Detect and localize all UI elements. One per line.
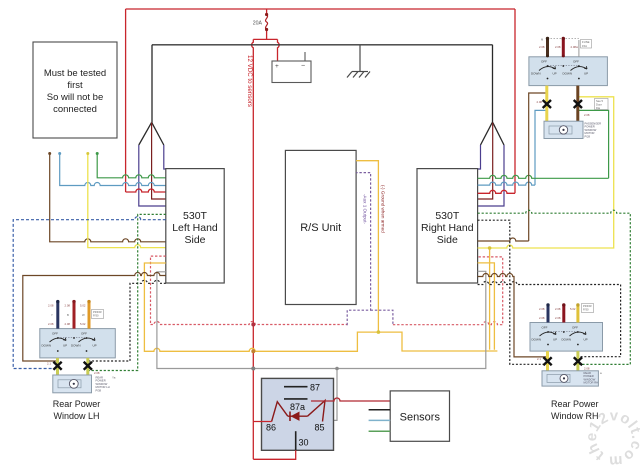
svg-text:first: first bbox=[67, 80, 83, 91]
SW2 switch symbols bbox=[50, 338, 96, 342]
svg-text:85: 85 bbox=[315, 423, 325, 433]
module 530T Right Hand Side bbox=[417, 169, 478, 283]
junction dot yellow riser bbox=[488, 246, 492, 250]
svg-text:5.02: 5.02 bbox=[80, 322, 86, 326]
rear window switch SW2 (LH) bbox=[40, 329, 116, 358]
svg-text:Side: Side bbox=[184, 234, 205, 246]
cut mark X on SW3 right stub bbox=[574, 357, 582, 365]
svg-text:+: + bbox=[275, 63, 279, 70]
svg-text:(-) Ground when armed: (-) Ground when armed bbox=[381, 185, 386, 233]
SW1 supply stub thin bbox=[578, 40, 580, 57]
svg-text:Ya: Ya bbox=[112, 376, 116, 380]
SW1 motor stub yellow bbox=[545, 86, 548, 122]
relay contact arms and diode D1 bbox=[272, 401, 325, 422]
SW3 switch symbols bbox=[540, 332, 587, 336]
wire: pink dotted Aux1 Output net bbox=[151, 256, 503, 325]
wire: dark red center leg right bbox=[478, 123, 493, 199]
svg-text:MOTOR RH: MOTOR RH bbox=[584, 381, 599, 385]
svg-text:−: − bbox=[301, 63, 305, 70]
wire: green dotted to LH motor below cut bbox=[88, 214, 166, 370]
svg-text:2.08: 2.08 bbox=[584, 113, 590, 117]
cut mark X on SW2 left stub bbox=[53, 362, 61, 370]
svg-text:5.02: 5.02 bbox=[570, 307, 576, 311]
svg-text:Y: Y bbox=[51, 313, 53, 317]
svg-text:2.08: 2.08 bbox=[584, 367, 590, 371]
SW3 supply stub navy bbox=[547, 305, 550, 323]
wire: brown tap from passenger switch into 530T right bbox=[478, 93, 547, 241]
SW1 supply stub brown bbox=[546, 39, 549, 57]
svg-text:UP: UP bbox=[553, 72, 557, 76]
svg-text:2.08: 2.08 bbox=[555, 307, 561, 311]
wire: red 86 branch bbox=[253, 421, 271, 423]
junction dots on 12VDC red line bbox=[251, 323, 255, 327]
wire: black dashed to RH motor below cut bbox=[478, 220, 546, 364]
wire: red 30 bottom loop bbox=[253, 450, 295, 459]
svg-text:Rear Power: Rear Power bbox=[551, 399, 599, 409]
svg-text:2.08: 2.08 bbox=[65, 304, 71, 308]
svg-text:530T: 530T bbox=[435, 210, 460, 222]
pin 30 bbox=[295, 431, 297, 450]
svg-text:530T: 530T bbox=[183, 210, 208, 222]
svg-text:Dia: Dia bbox=[596, 106, 601, 110]
svg-text:OFF: OFF bbox=[572, 326, 578, 330]
pin 87a bbox=[284, 398, 308, 400]
wire: brown to RH motor above cut bbox=[478, 274, 548, 357]
wire: purple fork leg left to pin bbox=[139, 145, 166, 206]
module 530T Left Hand Side bbox=[166, 169, 224, 283]
wire: red +12 feed into 530T right bbox=[478, 9, 515, 193]
svg-text:2.08: 2.08 bbox=[65, 322, 71, 326]
svg-text:UP: UP bbox=[584, 338, 588, 342]
note box: Must be tested first bbox=[33, 42, 117, 138]
svg-text:5.02: 5.02 bbox=[80, 304, 86, 308]
SW3 motor stub left bbox=[546, 351, 549, 371]
cut mark X on SW3 left stub bbox=[543, 357, 551, 365]
loom fork above 530T right bbox=[481, 45, 505, 145]
svg-text:87: 87 bbox=[310, 383, 320, 393]
wire: black dotted to LH motor above cut bbox=[88, 280, 166, 361]
svg-text:DOWN: DOWN bbox=[531, 72, 541, 76]
fuse F1 20A bbox=[266, 15, 268, 30]
pin 87 bbox=[284, 386, 308, 388]
SW3 motor stub right bbox=[576, 351, 579, 371]
svg-text:20A: 20A bbox=[253, 21, 263, 27]
wire: purple fork leg right to box corner bbox=[164, 145, 166, 169]
svg-text:OFF: OFF bbox=[542, 326, 548, 330]
svg-text:2.08: 2.08 bbox=[539, 307, 545, 311]
svg-text:15A: 15A bbox=[582, 44, 587, 48]
module Sensors bbox=[390, 391, 449, 441]
svg-text:30: 30 bbox=[299, 438, 309, 448]
wire: yellow net right run to passenger switch bbox=[478, 97, 614, 248]
wire: red 87a to sensors bbox=[311, 398, 390, 401]
svg-text:87a: 87a bbox=[290, 402, 305, 412]
svg-text:DOWN: DOWN bbox=[42, 344, 52, 348]
passenger window switch SW1 (top right) bbox=[529, 57, 608, 86]
wire: red feed into 530T left bbox=[126, 189, 166, 192]
svg-text:2.08: 2.08 bbox=[48, 322, 54, 326]
SW2 tap label box bbox=[92, 310, 104, 319]
watermark the12volt.com bbox=[583, 407, 640, 469]
SW2 supply stub orange bbox=[88, 302, 91, 329]
svg-text:P/38: P/38 bbox=[96, 388, 102, 392]
wire: purple fork leg to right box pin bbox=[478, 145, 504, 206]
svg-text:86: 86 bbox=[266, 423, 276, 433]
wire: green dotted to RH motor below cut bbox=[478, 210, 631, 364]
relay K1 bbox=[262, 378, 334, 450]
svg-text:Side: Side bbox=[437, 234, 458, 246]
wire: dark red center leg to pin bbox=[152, 123, 166, 199]
svg-text:UP: UP bbox=[584, 72, 588, 76]
svg-text:2.08w: 2.08w bbox=[571, 45, 579, 49]
SW2 motor stub right bbox=[86, 358, 89, 375]
wire: blue dashed to LH motor below cut bbox=[13, 217, 166, 369]
wire: purple fork leg to right box corner bbox=[478, 145, 481, 169]
passenger window motor M1 bbox=[544, 121, 583, 138]
svg-text:2.08: 2.08 bbox=[537, 100, 543, 104]
svg-text:PRIOR: PRIOR bbox=[583, 304, 592, 308]
rear RH window motor M3 bbox=[542, 371, 598, 386]
svg-text:connected: connected bbox=[53, 104, 97, 115]
wire: black main bus from top bbox=[152, 44, 493, 46]
SW2 motor stub left bbox=[56, 358, 59, 375]
svg-text:R/S Unit: R/S Unit bbox=[300, 222, 341, 234]
svg-text:DOWN: DOWN bbox=[71, 344, 81, 348]
svg-text:W: W bbox=[82, 313, 85, 317]
svg-text:2.08: 2.08 bbox=[94, 371, 100, 375]
svg-text:Must be tested: Must be tested bbox=[44, 68, 106, 79]
svg-text:UP: UP bbox=[553, 338, 557, 342]
svg-text:-Aux 1 Output-: -Aux 1 Output- bbox=[363, 194, 368, 224]
module R/S Unit bbox=[285, 150, 356, 304]
svg-text:2.1: 2.1 bbox=[47, 362, 51, 366]
svg-text:2.08: 2.08 bbox=[555, 45, 561, 49]
svg-text:PRIOR: PRIOR bbox=[93, 310, 102, 314]
svg-text:P/28: P/28 bbox=[585, 134, 591, 138]
SW2 supply stub red bbox=[73, 302, 76, 329]
svg-text:UP: UP bbox=[93, 344, 97, 348]
svg-text:OFF: OFF bbox=[541, 60, 547, 64]
svg-text:M: M bbox=[541, 38, 543, 42]
rear window switch SW3 (RH) bbox=[530, 323, 603, 352]
wire: black dashed loop to RH motor above cut bbox=[478, 282, 621, 357]
wire: +12V red top feed bbox=[126, 9, 515, 459]
wire: green tap into 530T right bbox=[478, 110, 609, 178]
wire: light blue floating test lead into 530T left bbox=[60, 153, 166, 186]
wire: sensor lead black bbox=[369, 409, 391, 411]
svg-text:See 5: See 5 bbox=[596, 99, 604, 103]
wire: brown floating test lead into 530T left bbox=[50, 153, 166, 242]
cut mark X on SW1 brown stub bbox=[574, 100, 582, 108]
SW1 supply stub dark red bbox=[562, 39, 565, 57]
svg-text:Window LH: Window LH bbox=[53, 411, 99, 421]
svg-text:2.1: 2.1 bbox=[537, 357, 541, 361]
svg-text:2.08: 2.08 bbox=[48, 304, 54, 308]
cut mark X on SW1 yellow stub bbox=[543, 100, 551, 108]
svg-text:Right Hand: Right Hand bbox=[421, 222, 474, 234]
svg-text:12 VDC to sensors: 12 VDC to sensors bbox=[246, 55, 253, 107]
svg-text:Rear Power: Rear Power bbox=[53, 399, 101, 409]
svg-text:DOWN: DOWN bbox=[562, 338, 572, 342]
battery B1 bbox=[272, 52, 311, 83]
wire: sensor lead green bbox=[369, 430, 391, 432]
svg-text:P/30: P/30 bbox=[93, 314, 99, 318]
SW3 tap label box bbox=[582, 304, 594, 313]
svg-text:DOWN: DOWN bbox=[563, 72, 573, 76]
svg-text:Left Hand: Left Hand bbox=[172, 222, 218, 234]
rear LH window motor M2 bbox=[53, 375, 92, 393]
svg-text:B: B bbox=[67, 313, 69, 317]
svg-text:OFF: OFF bbox=[573, 60, 579, 64]
SW1 tap label box bbox=[595, 99, 609, 110]
svg-text:OFF: OFF bbox=[81, 332, 87, 336]
svg-text:OFF: OFF bbox=[52, 332, 58, 336]
SW3 supply stub yellow bbox=[576, 305, 579, 323]
wire: yellow floating test lead into 530T left bbox=[88, 153, 166, 248]
SW2 supply stub navy bbox=[56, 302, 59, 329]
svg-text:Door: Door bbox=[596, 103, 602, 107]
wire: gray relay-85 net bbox=[157, 271, 486, 420]
wire: sensor lead light blue bbox=[369, 419, 391, 421]
ground symbol bbox=[347, 45, 370, 78]
wire: brown loop to LH window motor bbox=[23, 273, 166, 362]
svg-text:P/30: P/30 bbox=[583, 308, 589, 312]
svg-text:Sensors: Sensors bbox=[400, 412, 441, 424]
SW1 fuse label box bbox=[581, 40, 592, 49]
wire: light blue tap into 530T right bbox=[478, 110, 547, 185]
svg-text:2.08: 2.08 bbox=[539, 316, 545, 320]
loom fork above 530T left bbox=[139, 45, 164, 145]
wire: yellow/orange ground-when-armed net bbox=[144, 161, 497, 352]
SW1 switch symbols bbox=[539, 66, 587, 70]
svg-text:UP: UP bbox=[63, 344, 67, 348]
SW3 supply stub red bbox=[562, 305, 565, 323]
cut mark X on SW2 right stub bbox=[84, 362, 92, 370]
svg-text:2.08: 2.08 bbox=[539, 45, 545, 49]
wire: green floating test lead into 530T left bbox=[97, 153, 166, 178]
svg-text:So will not be: So will not be bbox=[47, 92, 104, 103]
SW1 motor stub brown bbox=[576, 86, 579, 122]
svg-text:DOWN: DOWN bbox=[532, 338, 542, 342]
svg-text:2.08: 2.08 bbox=[555, 316, 561, 320]
